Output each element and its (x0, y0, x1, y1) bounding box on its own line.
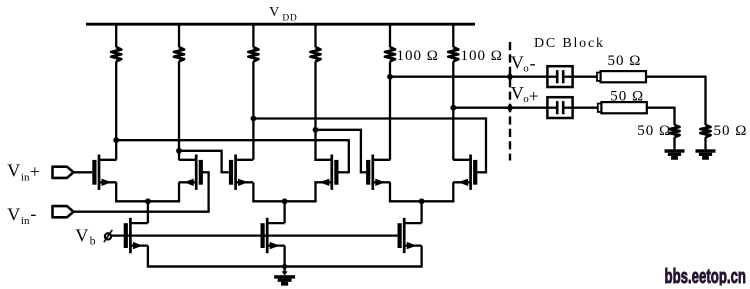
label 100 Ohm for R6 (461, 48, 503, 64)
resistor R8 50 Ohm (670, 125, 680, 149)
node tail 1 (145, 198, 151, 204)
svg-text:-: - (30, 203, 36, 223)
svg-text:DD: DD (282, 13, 297, 23)
svg-text:50 Ω: 50 Ω (608, 53, 642, 69)
svg-text:bbs.eetop.cn: bbs.eetop.cn (665, 265, 747, 288)
transistor T4 (314, 155, 336, 190)
ground of R8 (665, 149, 685, 159)
svg-text:V: V (7, 204, 20, 224)
ground of R7 (696, 149, 716, 159)
port Vin- (53, 206, 74, 217)
svg-text:V: V (269, 5, 279, 20)
svg-text:b: b (90, 236, 96, 248)
svg-text:V: V (511, 83, 524, 103)
label 50 Ohm R8 (637, 123, 671, 139)
node D (R4/T4 drain) (313, 127, 319, 133)
transistor T3 (231, 155, 253, 190)
transistor T2 (179, 155, 201, 190)
label Vin- (7, 203, 36, 227)
node Vo- (diamond) (507, 72, 514, 81)
wire node E to Vo- port (390, 76, 547, 78)
node tail 3 (419, 198, 425, 204)
svg-text:100 Ω: 100 Ω (461, 48, 503, 64)
wire bottom rail (147, 265, 423, 268)
wire sources of pair 1 (115, 182, 180, 201)
node B (R2/T2 drain) (176, 148, 182, 154)
resistor R2 (load) (174, 24, 184, 160)
node E (R5/T5 drain) (387, 74, 393, 80)
svg-text:o: o (523, 63, 529, 75)
transmission line TL2 50 Ohm (598, 102, 647, 113)
transistor T1 (94, 155, 116, 190)
wire TL1 to R7 (646, 76, 706, 125)
svg-text:100 Ω: 100 Ω (397, 48, 439, 64)
label 50 Ohm R7 (714, 123, 748, 139)
capacitor C2 (DC block) (547, 97, 572, 118)
wire TL2 to R8 (647, 107, 675, 125)
label 50 Ohm TL2 (610, 88, 644, 104)
resistor R6 100&#937; (load) (448, 24, 458, 160)
resistor R5 100&#937; (load) (385, 24, 395, 160)
svg-text:50 Ω: 50 Ω (610, 88, 644, 104)
wire sources of pair 3 (389, 182, 455, 201)
wire sources of pair 2 (252, 182, 316, 201)
label Vb (75, 225, 95, 247)
svg-text:in: in (21, 215, 30, 227)
transmission line TL1 50 Ohm (597, 71, 646, 82)
wire T7 source down (147, 246, 149, 267)
resistor R7 50 Ohm (701, 125, 711, 149)
label Vin+ (7, 161, 40, 184)
wire Vb bias bus (111, 234, 397, 236)
node C (R3/T3 drain) (251, 116, 257, 122)
transistor T5 (368, 155, 390, 190)
wire C2 to TL2 (573, 107, 598, 109)
wire Vin+ to T1 gate (74, 171, 93, 173)
svg-text:50 Ω: 50 Ω (714, 123, 748, 139)
wire C1 to TL1 (573, 76, 597, 78)
watermark bbs.eetop.cn (665, 265, 747, 288)
wire tail 3 down (420, 201, 422, 223)
VDD power rail (86, 23, 475, 26)
svg-text:-: - (530, 53, 536, 73)
wire node C to T6 gate (253, 117, 487, 172)
label Vo- (511, 53, 536, 75)
dashed boundary line (509, 42, 511, 161)
node tail 2 (282, 198, 288, 204)
label 50 Ohm TL1 (608, 53, 642, 69)
svg-text:in: in (21, 171, 30, 183)
label Vo+ (511, 83, 539, 106)
label DC Block (534, 36, 605, 51)
transistor T9 (tail 3) (400, 218, 422, 253)
ground (main) (274, 275, 295, 285)
svg-text:+: + (30, 161, 40, 181)
transistor T6 (453, 155, 475, 190)
wire T9 source down (420, 246, 422, 267)
wire T8 source down (283, 246, 285, 267)
wire ground stem (282, 267, 288, 276)
wire node A to T4 gate (116, 139, 350, 172)
wire node F to Vo+ port (453, 107, 547, 109)
wire node B to T3 gate (179, 150, 229, 173)
port Vb (104, 230, 112, 242)
svg-text:V: V (7, 161, 20, 181)
resistor R1 (load) (111, 24, 121, 160)
node Vo+ (diamond) (507, 103, 514, 112)
svg-text:V: V (511, 53, 524, 73)
label VDD (269, 5, 297, 24)
resistor R3 (load) (248, 24, 258, 160)
capacitor C1 (DC block) (547, 66, 572, 87)
svg-text:V: V (75, 225, 88, 245)
wire tail 2 down (283, 201, 285, 223)
node ground tap (282, 264, 287, 269)
svg-text:DC Block: DC Block (534, 36, 605, 51)
transistor T8 (tail 2) (263, 218, 285, 253)
resistor R4 (load) (311, 24, 321, 160)
node A (R1/T1 drain) (113, 137, 119, 143)
wire tail 1 down (147, 201, 149, 223)
svg-text:50 Ω: 50 Ω (637, 123, 671, 139)
label 100 Ohm for R5 (397, 48, 439, 64)
port Vin+ (53, 167, 74, 178)
wire node D to T5 gate (316, 129, 367, 173)
svg-text:+: + (529, 86, 539, 106)
node F (R6/T6 drain) (450, 105, 456, 111)
wire Vin- to T2 gate (74, 172, 210, 213)
transistor T7 (tail 1) (126, 218, 148, 253)
